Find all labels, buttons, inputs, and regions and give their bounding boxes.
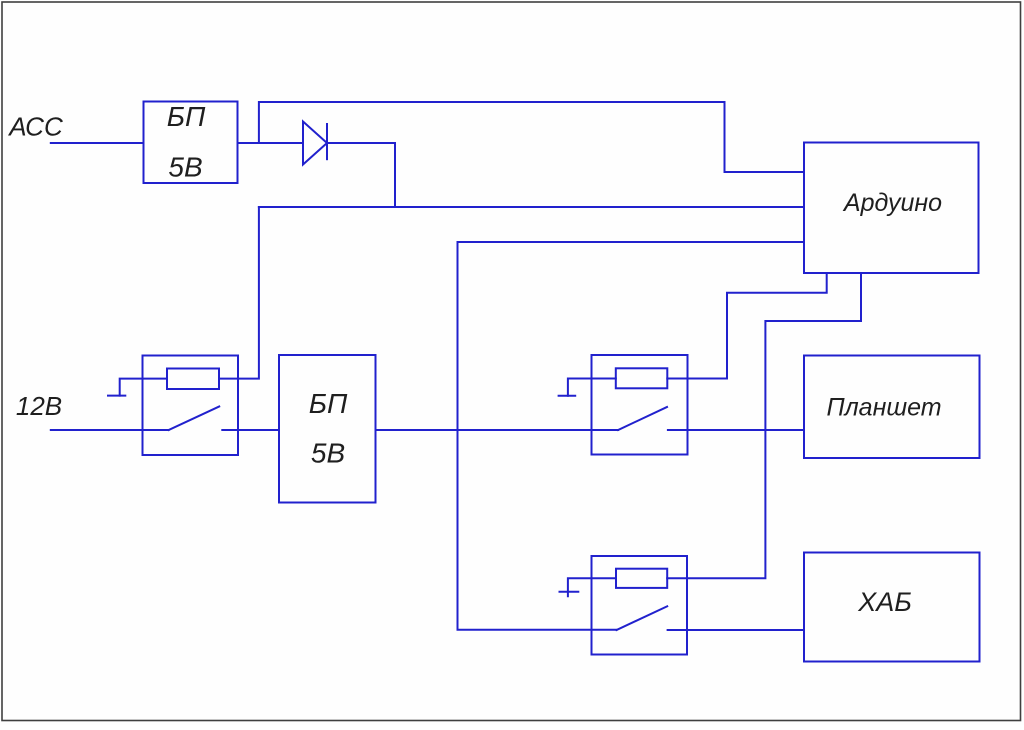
diode VD1 cathode bar xyxy=(326,124,328,159)
wire K2 coil to Arduino pin 1 xyxy=(667,273,826,379)
ground bar at K1 xyxy=(108,395,125,397)
wire K3 coil to ground xyxy=(568,578,616,596)
wire branch up from PS1 output to Arduino top feed xyxy=(259,102,804,172)
relay K2 box xyxy=(592,355,688,455)
relay K1 coil resistor xyxy=(167,369,219,390)
wire K1 coil to ground xyxy=(120,379,167,396)
svg-text:АСС: АСС xyxy=(7,112,63,142)
power supply PS1 box xyxy=(144,102,238,184)
svg-text:Планшет: Планшет xyxy=(826,394,941,422)
ground bar at K3 xyxy=(560,591,579,593)
ground bar at K2 xyxy=(559,395,576,397)
wire 5V net horizontal into Arduino xyxy=(259,206,804,208)
relay K2 coil resistor xyxy=(616,368,668,388)
wire K2 coil to ground xyxy=(568,379,616,396)
block hub box xyxy=(804,553,980,662)
block Arduino box xyxy=(804,143,979,274)
wire switched 5V feed to Arduino xyxy=(458,242,805,630)
svg-text:Ардуино: Ардуино xyxy=(842,189,942,217)
diode VD1 triangle xyxy=(303,122,327,165)
relay K3 coil resistor xyxy=(616,569,667,588)
relay K3 box xyxy=(592,556,688,655)
wire ACC input xyxy=(51,142,144,144)
svg-text:5В: 5В xyxy=(311,438,345,469)
wire K3 contact to hub xyxy=(668,629,804,631)
relay K3 switch arm xyxy=(617,606,668,630)
svg-text:БП: БП xyxy=(309,388,348,419)
relay K1 box xyxy=(143,356,239,456)
svg-text:БП: БП xyxy=(167,101,206,132)
relay K1 switch arm xyxy=(169,407,220,431)
block tablet box xyxy=(804,356,980,459)
wire 12V input to K1 common xyxy=(51,429,169,431)
wire diode cathode down to 5V net xyxy=(327,143,395,207)
svg-text:ХАБ: ХАБ xyxy=(857,587,912,617)
wire K2 contact to tablet xyxy=(668,429,804,431)
wire PS1 output to diode anode xyxy=(238,142,304,144)
wire K3 coil to Arduino pin 2 xyxy=(667,273,861,578)
wire PS2 output to relay K2 common xyxy=(376,429,619,431)
wire 5V net down to relay K1 coil xyxy=(219,207,259,379)
relay K2 switch arm xyxy=(618,407,667,430)
svg-text:12В: 12В xyxy=(16,391,62,421)
wire K1 contact to PS2 xyxy=(222,429,279,431)
svg-text:5В: 5В xyxy=(168,152,202,183)
power supply PS2 box xyxy=(279,355,376,503)
